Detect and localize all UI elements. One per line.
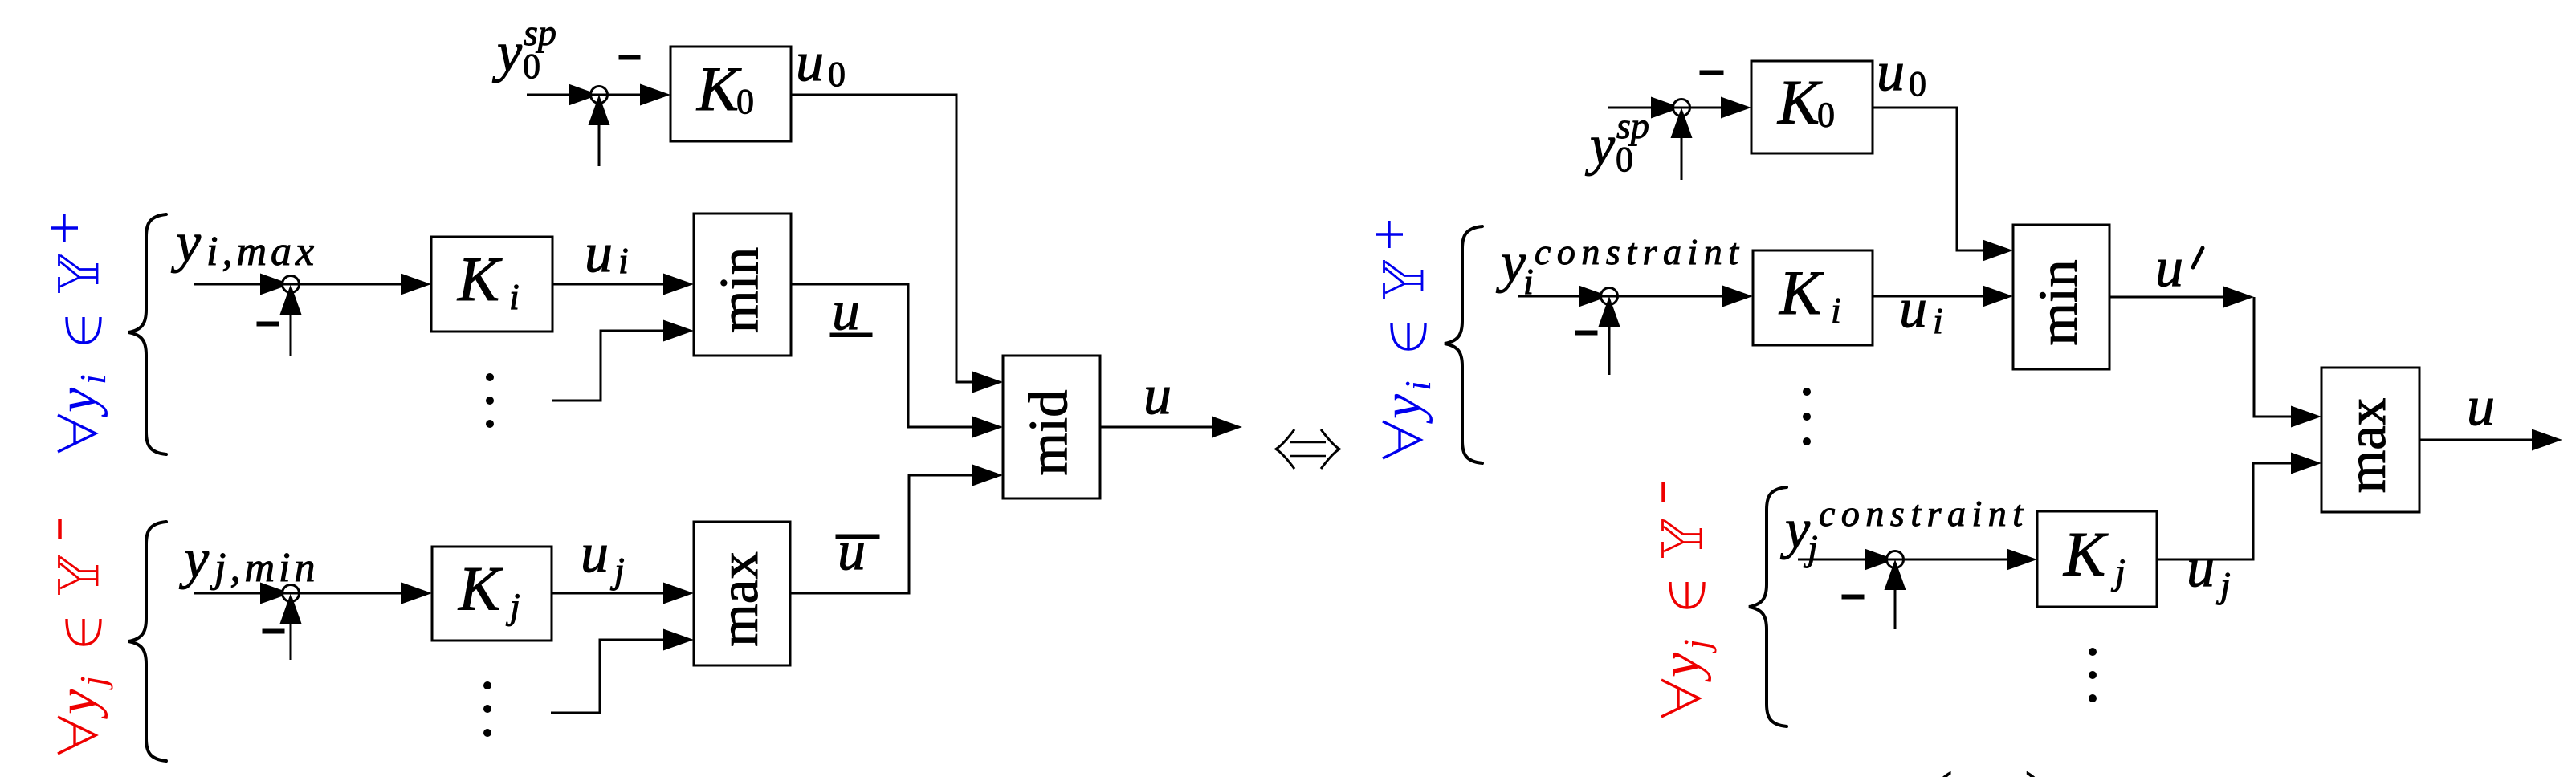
svg-text:mid: mid: [1018, 389, 1079, 475]
svg-text:y: y: [1496, 232, 1526, 294]
svg-text:K: K: [696, 54, 742, 124]
svg-text:i: i: [1933, 300, 1943, 341]
svg-text:0: 0: [1817, 96, 1835, 135]
svg-text:min: min: [709, 247, 770, 333]
svg-text:K: K: [1777, 67, 1823, 137]
svg-text:i: i: [72, 374, 113, 384]
svg-text:y: y: [47, 387, 108, 417]
svg-text:y: y: [1650, 652, 1712, 682]
svg-text:sp: sp: [524, 12, 556, 53]
svg-text:max: max: [708, 551, 769, 647]
svg-text:u: u: [1899, 278, 1927, 340]
svg-text:u: u: [2187, 537, 2215, 599]
svg-text:0: 0: [1909, 64, 1926, 104]
svg-text:y: y: [179, 528, 210, 590]
svg-text:sp: sp: [1616, 105, 1649, 146]
svg-text:y: y: [492, 22, 523, 83]
svg-text:y: y: [47, 689, 108, 719]
svg-text:y: y: [1372, 393, 1433, 424]
svg-text:y: y: [171, 212, 202, 274]
svg-text:K: K: [457, 244, 503, 314]
svg-text:u: u: [832, 280, 860, 342]
svg-text:constraint: constraint: [1535, 231, 1745, 272]
svg-text:j: j: [1676, 639, 1717, 653]
svg-text:max: max: [2336, 398, 2397, 494]
svg-text:u: u: [1143, 364, 1172, 426]
svg-text:u: u: [796, 31, 824, 93]
svg-text:u: u: [585, 222, 613, 284]
svg-text:0: 0: [736, 82, 754, 121]
svg-text:i: i: [1831, 290, 1841, 331]
svg-text:K: K: [2063, 519, 2109, 589]
svg-text:j: j: [610, 550, 625, 591]
svg-text:0: 0: [828, 55, 846, 94]
svg-text:i: i: [1397, 380, 1438, 391]
svg-text:y: y: [1585, 115, 1616, 177]
svg-text:(: (: [1934, 762, 1952, 777]
svg-text:min: min: [2028, 259, 2089, 345]
svg-text:K: K: [458, 554, 503, 624]
svg-text:i: i: [618, 240, 629, 281]
svg-text:): ): [2025, 762, 2044, 777]
svg-text:y: y: [1780, 498, 1811, 560]
svg-text:i: i: [509, 276, 520, 317]
svg-text:u: u: [838, 520, 866, 582]
svg-text:u: u: [2155, 237, 2183, 299]
svg-text:K: K: [1779, 258, 1824, 327]
svg-text:i,max: i,max: [206, 229, 318, 275]
svg-text:j: j: [72, 676, 113, 690]
svg-text:j: j: [2216, 564, 2231, 605]
svg-text:u: u: [2467, 376, 2495, 437]
svg-text:constraint: constraint: [1819, 493, 2029, 534]
svg-text:u: u: [1877, 41, 1905, 103]
svg-text:u: u: [581, 523, 609, 584]
